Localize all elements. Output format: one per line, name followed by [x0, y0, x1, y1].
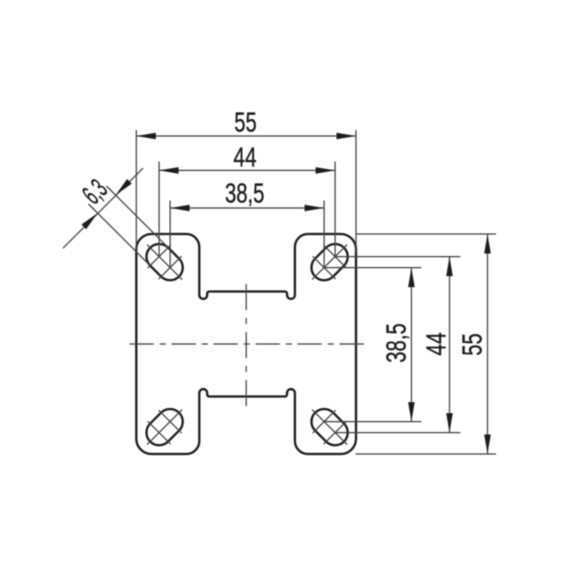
dimension line 6,3	[63, 168, 143, 248]
extension line 44 bottom (right dim)	[335, 432, 460, 434]
svg-text:44: 44	[233, 141, 256, 172]
extension line 44 right (top dim)	[334, 162, 336, 257]
hole bottom-left with center marks	[146, 409, 182, 445]
extension line 38,5 bottom (right dim)	[324, 421, 421, 423]
extension line 38,5 left	[169, 201, 171, 268]
svg-text:38,5: 38,5	[225, 178, 265, 209]
horizontal center line	[130, 343, 364, 345]
dimension line 55 top	[136, 135, 356, 137]
extension line 44 left	[158, 162, 160, 257]
extension line 6,3 lower tangent	[89, 204, 151, 266]
svg-text:38,5: 38,5	[381, 323, 412, 363]
svg-text:44: 44	[420, 332, 451, 355]
extension line 55 left	[135, 130, 137, 252]
hole top-left with center marks	[146, 244, 182, 280]
extension line 6,3 upper tangent	[107, 186, 169, 248]
hole bottom-right with center marks	[311, 409, 347, 445]
extension line 55 right (top dim)	[355, 130, 357, 252]
extension line 55 top (right dim)	[356, 233, 497, 235]
dimension line 44 top	[159, 169, 335, 171]
dimension line 55 right	[487, 234, 489, 454]
dimension line 38,5 top	[170, 207, 324, 209]
hole top-right with center marks	[311, 244, 347, 280]
extension line 38,5 top (right dim)	[324, 267, 421, 269]
plate outline	[136, 234, 356, 454]
dimension line 44 right	[449, 257, 451, 433]
extension line 38,5 right (top dim)	[323, 201, 325, 268]
extension line 55 bottom (right dim)	[356, 453, 497, 455]
svg-text:55: 55	[234, 107, 257, 138]
svg-text:55: 55	[457, 333, 488, 356]
vertical center line	[245, 284, 247, 406]
dimension line 38,5 right	[410, 268, 412, 422]
extension line 44 top (right dim)	[335, 256, 460, 258]
